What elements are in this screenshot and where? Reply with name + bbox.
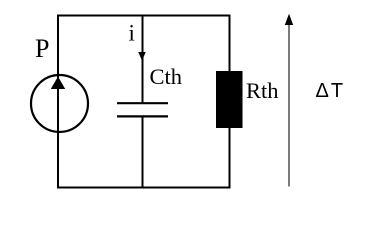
wire bottom rail: [57, 187, 231, 189]
svg-text:Rth: Rth: [246, 78, 279, 103]
wire capacitor branch upper: [142, 16, 144, 103]
resistor Rth: [216, 71, 243, 128]
wire left rail: [57, 15, 59, 189]
svg-text:P: P: [35, 34, 49, 63]
svg-text:i: i: [129, 21, 135, 46]
wire right rail upper: [229, 16, 231, 73]
svg-text:Cth: Cth: [150, 64, 183, 89]
wire top rail: [57, 15, 231, 17]
svg-text:ΔT: ΔT: [316, 80, 346, 102]
current source P: [31, 75, 88, 132]
delta-T axis arrow: [285, 14, 293, 187]
wire right rail lower: [229, 127, 231, 189]
capacitor Cth: [117, 103, 168, 116]
current arrow i: [138, 52, 146, 61]
wire capacitor branch lower: [142, 117, 144, 188]
